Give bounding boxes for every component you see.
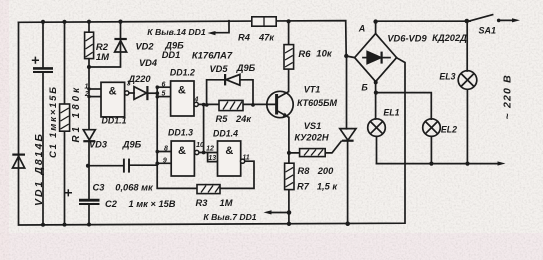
svg-text:С2: С2	[105, 199, 118, 209]
svg-text:EL1: EL1	[383, 107, 399, 117]
svg-text:SA1: SA1	[479, 26, 497, 36]
svg-text:VD2: VD2	[135, 42, 154, 52]
svg-text:VD4: VD4	[139, 58, 158, 68]
svg-text:1,5 к: 1,5 к	[317, 181, 339, 191]
svg-text:EL3: EL3	[439, 72, 455, 82]
svg-text:5: 5	[162, 91, 166, 98]
svg-text:КУ202Н: КУ202Н	[294, 133, 329, 143]
svg-text:1М: 1М	[220, 198, 233, 208]
svg-text:10: 10	[196, 142, 204, 149]
svg-text:0,068 мк: 0,068 мк	[115, 183, 154, 193]
svg-text:DD1: DD1	[162, 50, 181, 60]
svg-text:С3: С3	[93, 183, 106, 193]
svg-text:R4: R4	[238, 33, 251, 43]
svg-text:3: 3	[127, 81, 131, 88]
svg-text:VD6-VD9: VD6-VD9	[387, 33, 427, 43]
svg-text:8: 8	[164, 146, 168, 153]
svg-text:DD1.4: DD1.4	[213, 129, 238, 139]
svg-text:DD1.1: DD1.1	[102, 116, 127, 126]
svg-text:&: &	[178, 145, 186, 157]
svg-text:R3: R3	[196, 198, 209, 208]
svg-text:&: &	[225, 145, 233, 157]
svg-text:Д9Б: Д9Б	[164, 41, 184, 51]
svg-text:&: &	[109, 86, 117, 98]
svg-text:2: 2	[84, 91, 89, 98]
svg-text:Д9Б: Д9Б	[122, 139, 142, 149]
svg-text:Д9Б: Д9Б	[236, 63, 256, 73]
svg-text:К Выв.14 DD1: К Выв.14 DD1	[147, 27, 206, 37]
svg-text:4: 4	[193, 97, 198, 104]
svg-text:1М: 1М	[96, 52, 110, 63]
svg-text:200: 200	[317, 166, 334, 176]
svg-text:9: 9	[163, 157, 167, 164]
svg-text:VD1 Д814Б: VD1 Д814Б	[33, 132, 45, 206]
svg-text:VD5: VD5	[209, 64, 228, 74]
svg-text:10к: 10к	[316, 49, 333, 60]
svg-text:КД202Д: КД202Д	[432, 33, 467, 43]
svg-text:DD1.3: DD1.3	[168, 128, 193, 138]
svg-text:24к: 24к	[235, 114, 252, 124]
svg-text:1: 1	[85, 84, 89, 91]
svg-text:VT1: VT1	[304, 84, 321, 94]
svg-text:1 мк × 15В: 1 мк × 15В	[129, 199, 176, 209]
svg-text:С1 1мк×15Б: С1 1мк×15Б	[48, 85, 59, 158]
svg-text:VS1: VS1	[304, 121, 322, 131]
svg-text:R1 180к: R1 180к	[71, 85, 82, 143]
svg-text:R8: R8	[298, 166, 311, 176]
svg-text:R7: R7	[297, 181, 310, 191]
svg-text:~ 220 В: ~ 220 В	[502, 74, 514, 119]
svg-text:КТ605БМ: КТ605БМ	[297, 98, 338, 108]
svg-text:Б: Б	[361, 83, 368, 93]
svg-text:К Выв.7 DD1: К Выв.7 DD1	[203, 212, 256, 222]
svg-text:R6: R6	[298, 49, 311, 60]
svg-text:11: 11	[242, 155, 249, 162]
svg-text:12: 12	[206, 145, 214, 152]
svg-text:А: А	[358, 24, 366, 34]
svg-text:EL2: EL2	[441, 124, 457, 134]
svg-text:VD3: VD3	[89, 139, 108, 149]
svg-text:&: &	[178, 85, 186, 97]
svg-text:DD1.2: DD1.2	[170, 67, 195, 77]
svg-text:К176ЛА7: К176ЛА7	[192, 51, 233, 62]
svg-text:R5: R5	[216, 114, 229, 124]
svg-text:Д220: Д220	[127, 74, 151, 84]
svg-text:6: 6	[162, 82, 166, 89]
svg-text:13: 13	[208, 155, 216, 162]
svg-text:47к: 47к	[258, 32, 275, 42]
